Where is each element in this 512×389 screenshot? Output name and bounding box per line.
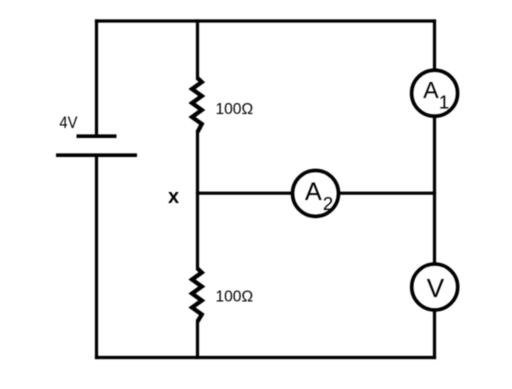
wire left lower (battery to bottom rail): [95, 156, 98, 358]
svg-text:2: 2: [323, 193, 333, 214]
svg-text:4V: 4V: [59, 113, 78, 132]
ammeter A2: [293, 170, 339, 216]
wire A2 to right branch: [339, 192, 435, 195]
wire middle upper (top rail to R1): [196, 21, 199, 79]
wire right lower (V to bottom rail): [433, 311, 436, 358]
svg-text:100Ω: 100Ω: [216, 289, 254, 306]
wire bottom: [97, 356, 435, 359]
battery B1 4V: [56, 136, 137, 155]
resistor R1 (upper 100 ohm): [192, 78, 202, 132]
wire right middle (A1 to V): [433, 117, 436, 264]
svg-text:100Ω: 100Ω: [216, 101, 254, 118]
svg-text:1: 1: [439, 92, 449, 113]
wire node x to A2: [198, 192, 293, 195]
wire right upper (top rail to A1): [433, 21, 436, 70]
svg-text:x: x: [168, 186, 179, 208]
svg-text:V: V: [427, 273, 445, 303]
svg-text:A: A: [305, 178, 322, 206]
wire left upper (top rail to battery): [95, 21, 98, 135]
wire middle center (R1 to R2 through node x): [196, 132, 199, 269]
svg-text:A: A: [423, 77, 439, 103]
wire middle lower (R2 to bottom rail): [196, 322, 199, 358]
wire top: [97, 19, 435, 22]
voltmeter V: [412, 264, 458, 310]
ammeter A1: [412, 70, 458, 116]
resistor R2 (lower 100 ohm): [192, 269, 202, 322]
